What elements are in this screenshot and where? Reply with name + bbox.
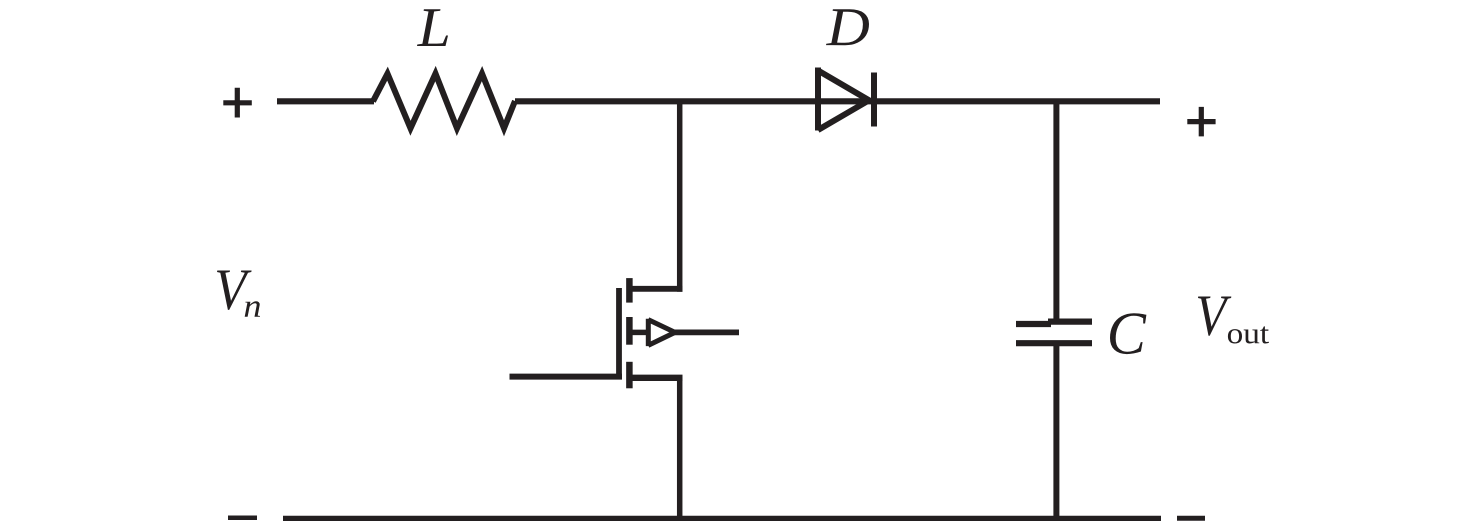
- diode D (anode bar, open triangle over wire, cathode bar): [818, 68, 874, 131]
- source lead: [629, 375, 682, 381]
- label L (inductor): [417, 9, 448, 46]
- drain channel stub: [626, 278, 633, 303]
- label Vout (output voltage): [1198, 297, 1231, 336]
- body lead stub: [632, 330, 647, 336]
- label C (capacitor): [1110, 313, 1146, 354]
- label Vn subscript n: [245, 301, 260, 316]
- capacitor C (two plates, top plate has scan step): [1016, 322, 1092, 344]
- wire: capacitor bottom lead down to bottom rail: [1053, 345, 1059, 518]
- label Vout subscript out: [1228, 326, 1269, 343]
- body terminal line going right: [670, 329, 739, 335]
- node: input positive terminal (+): [223, 88, 252, 118]
- node: output positive terminal (+): [1187, 107, 1215, 136]
- wire: source wire down to bottom rail: [677, 378, 683, 519]
- gate bar: [616, 288, 622, 380]
- wire: bottom rail (ground return): [283, 516, 1161, 521]
- label Vn (input voltage): [217, 271, 252, 310]
- wire: vertical drain wire from top rail down to MOSFET: [677, 101, 683, 291]
- wire: capacitor branch from top rail down to top plate: [1053, 101, 1059, 322]
- wire: top rail from inductor through diode to right end: [515, 98, 1160, 104]
- wire: top-left lead from + terminal to inductor: [277, 98, 374, 104]
- source channel stub: [626, 362, 633, 389]
- body arrow (open triangle pointing right): [648, 319, 675, 346]
- label D (diode): [826, 9, 869, 45]
- wire: gate lead going left: [510, 374, 623, 380]
- node: output negative terminal (-): [1177, 516, 1205, 521]
- node: input negative terminal (-): [228, 516, 257, 521]
- inductor L (zigzag): [373, 74, 515, 129]
- body channel stub: [626, 317, 633, 345]
- drain lead: [629, 286, 682, 292]
- transistor Q1 (n-channel MOSFET switch): [619, 278, 739, 388]
